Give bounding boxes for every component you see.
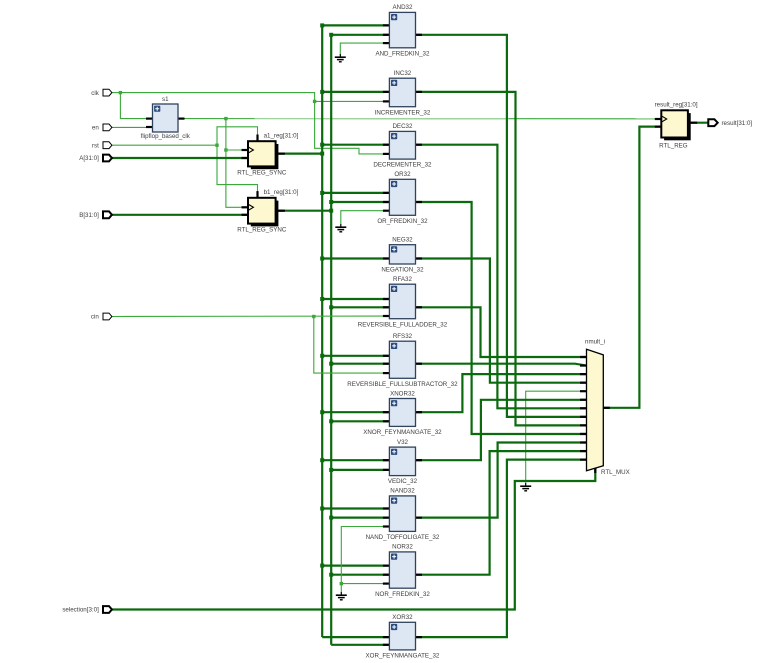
ground at RTL_MUX pin5 (520, 483, 531, 491)
node A trunk junction (320, 257, 324, 261)
node A trunk junction (320, 143, 324, 147)
wire bus B branch to RFA32 (331, 306, 389, 308)
node A trunk junction (320, 90, 324, 94)
wire bus A branch to RFA32 (322, 298, 389, 300)
wire bus A branch to DEC32 (322, 144, 389, 146)
svg-text:AND32: AND32 (392, 4, 413, 11)
node B trunk junction (329, 573, 333, 577)
svg-text:REVERSIBLE_FULLADDER_32: REVERSIBLE_FULLADDER_32 (358, 321, 448, 328)
wire clk from port (112, 92, 121, 94)
svg-text:XOR32: XOR32 (392, 614, 413, 621)
svg-text:RFA32: RFA32 (393, 276, 412, 283)
svg-text:XNOR_FEYNMANGATE_32: XNOR_FEYNMANGATE_32 (363, 429, 442, 436)
node A trunk junction (320, 191, 324, 195)
wire bus a1_reg Q to A trunk (278, 153, 322, 155)
wire clk trunk to DEC32 pin2 (120, 93, 389, 154)
wire bus A branch to V32 (322, 459, 389, 461)
module REVERSIBLE_FULLSUBTRACTOR_32 (RFS32) (347, 333, 458, 388)
wire bus A branch to NAND32 (322, 507, 389, 509)
svg-text:rst: rst (92, 142, 99, 149)
wire bus B branch to V32 (331, 469, 389, 471)
ground below OR32 (335, 224, 346, 232)
wire bus mux out to RTL_REG D (603, 127, 661, 408)
wire bus A branch to XNOR32 (322, 411, 389, 413)
wire gated clock branch to a1_reg C (226, 149, 248, 151)
node rst junction (215, 144, 218, 147)
wire RTL_MUX pin5 to ground (526, 391, 587, 483)
wire bus A trunk vertical (321, 25, 323, 637)
wire bus XOR32 out to mux pin13 (416, 460, 587, 637)
node B trunk junction (329, 200, 333, 204)
svg-text:RTL_REG_SYNC: RTL_REG_SYNC (237, 226, 287, 233)
wire NAND32 pin3 to ground (341, 527, 389, 593)
wire bus B branch to XOR32 (331, 644, 389, 646)
wire bus INC32 out to mux pin9 (416, 92, 587, 426)
wire rst to a1_reg R pin (217, 127, 258, 145)
module VEDIC_32 (V32) (383, 439, 422, 485)
input port en (92, 124, 112, 132)
svg-text:REVERSIBLE_FULLSUBTRACTOR_32: REVERSIBLE_FULLSUBTRACTOR_32 (347, 381, 458, 388)
node gated clock junction (224, 117, 227, 120)
svg-text:VEDIC_32: VEDIC_32 (388, 478, 418, 485)
wire bus b1_reg Q to B trunk (278, 210, 331, 212)
multiplexer nmult_i RTL_MUX (580, 339, 630, 477)
wire bus B trunk vertical (330, 35, 332, 645)
svg-text:RTL_MUX: RTL_MUX (601, 469, 630, 476)
wire bus XNOR32 out to mux pin3 (416, 374, 587, 412)
svg-text:V32: V32 (397, 439, 409, 446)
svg-text:RTL_REG: RTL_REG (659, 142, 688, 149)
wire rst to b1_reg R pin (217, 145, 258, 198)
wire cin to RFA32 pin3 (112, 315, 390, 318)
input port A[31:0] (79, 155, 112, 163)
node A trunk junction (320, 297, 324, 301)
node cin junction (312, 315, 315, 318)
svg-text:INCREMENTER_32: INCREMENTER_32 (375, 109, 431, 116)
node B trunk junction (329, 33, 333, 37)
svg-text:OR32: OR32 (394, 171, 411, 178)
module NAND_TOFFOLIGATE_32 (NAND32) (366, 488, 440, 541)
wire bus A branch to NOR32 (322, 564, 389, 566)
wire bus RFA32 out to mux pin1 (416, 307, 587, 357)
svg-text:NEG32: NEG32 (392, 237, 413, 244)
wire OR32 pin3 to ground (341, 211, 390, 224)
svg-text:s1: s1 (162, 96, 169, 103)
wire bus NAND32 out to mux pin11 (416, 443, 587, 518)
node B trunk junction (329, 419, 333, 423)
svg-text:result[31:0]: result[31:0] (722, 120, 753, 127)
svg-text:clk: clk (91, 90, 99, 97)
svg-text:NAND_TOFFOLIGATE_32: NAND_TOFFOLIGATE_32 (366, 534, 440, 541)
wire gated clock down to b1_reg C (226, 119, 248, 208)
node clk-INC junction (313, 100, 316, 103)
flipflop block s1 (141, 96, 191, 140)
svg-text:selection[3:0]: selection[3:0] (62, 607, 99, 614)
module REVERSIBLE_FULLADDER_32 (RFA32) (358, 276, 448, 328)
wire bus OR32 out to mux pin10 (416, 202, 587, 434)
wire bus NEG32 out to mux pin4 (416, 259, 587, 383)
svg-text:a1_reg[31:0]: a1_reg[31:0] (264, 133, 299, 140)
svg-text:en: en (92, 125, 99, 132)
wire bus A branch to OR32 (322, 192, 389, 194)
wire bus B branch to NOR32 (331, 574, 389, 576)
wire clk to s1 CLK pin (120, 93, 152, 119)
node A trunk junction (320, 507, 324, 511)
svg-text:NEGATION_32: NEGATION_32 (381, 267, 424, 274)
svg-text:DEC32: DEC32 (392, 123, 413, 130)
wire bus A branch to INC32 (322, 91, 389, 93)
wire bus VEDIC32 out to mux pin6 (416, 400, 587, 460)
svg-text:NAND32: NAND32 (390, 488, 415, 495)
wire cin branch to RFS32 pin3 (314, 317, 390, 374)
node A trunk junction (320, 564, 324, 568)
wire bus A[31:0] to a1_reg D (112, 157, 248, 159)
module NEGATION_32 (NEG32) (381, 237, 424, 274)
input port clk (91, 89, 112, 97)
wire bus B branch to OR32 (331, 201, 389, 203)
module AND_FREDKIN_32 (AND32) (375, 4, 430, 57)
node A trunk junction (320, 458, 324, 462)
wire bus selection to mux select (112, 469, 595, 610)
node B trunk junction (329, 468, 333, 472)
register result_reg RTL_REG (655, 102, 698, 141)
svg-text:INC32: INC32 (394, 70, 412, 77)
wire bus B branch to AND32 (331, 34, 389, 36)
svg-text:RFS32: RFS32 (393, 333, 413, 340)
svg-text:flipflop_based_clk: flipflop_based_clk (141, 133, 191, 140)
node B trunk junction (329, 305, 333, 309)
svg-text:nmult_i: nmult_i (585, 339, 605, 346)
svg-text:RTL_REG_SYNC: RTL_REG_SYNC (237, 169, 287, 176)
ground below NOR32 (336, 592, 347, 600)
wire bus A branch to AND32 (322, 24, 389, 26)
register b1_reg RTL_REG_SYNC (242, 189, 299, 226)
wire AND32 pin3 to ground (340, 43, 389, 54)
module XNOR_FEYNMANGATE_32 (XNOR32) (363, 390, 442, 436)
svg-text:cin: cin (91, 314, 99, 321)
svg-text:A[31:0]: A[31:0] (79, 155, 99, 162)
svg-text:DECREMENTER_32: DECREMENTER_32 (373, 162, 432, 169)
svg-text:XOR_FEYNMANGATE_32: XOR_FEYNMANGATE_32 (366, 653, 440, 660)
svg-text:b1_reg[31:0]: b1_reg[31:0] (264, 189, 299, 196)
wire bus B[31:0] to b1_reg D (112, 214, 248, 216)
module XOR_FEYNMANGATE_32 (XOR32) (366, 614, 440, 659)
svg-text:XNOR32: XNOR32 (390, 390, 415, 397)
wire bus B branch to XNOR32 (331, 420, 389, 422)
node clk junction (119, 91, 122, 94)
svg-text:NOR32: NOR32 (392, 544, 413, 551)
node gated clock a1 junction (224, 148, 227, 151)
module INCREMENTER_32 (INC32) (375, 70, 431, 116)
wire gated clock s1 to RTL_REG C (178, 118, 661, 120)
svg-text:result_reg[31:0]: result_reg[31:0] (655, 102, 698, 109)
svg-text:NOR_FREDKIN_32: NOR_FREDKIN_32 (375, 591, 430, 598)
wire bus RFS32 out to mux pin2 (416, 364, 587, 366)
svg-text:OR_FREDKIN_32: OR_FREDKIN_32 (377, 218, 428, 225)
module NOR_FREDKIN_32 (NOR32) (375, 544, 430, 598)
node A trunk junction (320, 354, 324, 358)
node B trunk junction (329, 209, 333, 213)
module DECREMENTER_32 (DEC32) (373, 123, 432, 169)
input port B[31:0] (79, 211, 112, 219)
register a1_reg RTL_REG_SYNC (242, 133, 299, 170)
wire bus AND32 out to mux pin8 (416, 35, 587, 417)
wire en to s1 (112, 126, 153, 128)
wire bus NOR32 out to mux pin12 (416, 451, 587, 575)
wire bus DEC32 out to mux pin7 (416, 145, 587, 409)
wire bus B branch to NAND32 (331, 516, 389, 518)
node B trunk junction (329, 362, 333, 366)
module OR_FREDKIN_32 (OR32) (377, 171, 428, 225)
wire clk branch to INC32 pin2 (315, 100, 390, 102)
input port rst (92, 142, 112, 150)
wire bus A branch to XOR32 (322, 636, 389, 638)
wire bus A branch to NEG32 (322, 257, 389, 259)
wire rst from port (112, 144, 217, 146)
wire bus RTL_REG Q to result port (691, 122, 709, 124)
wire bus A branch to RFS32 (322, 355, 389, 357)
svg-text:AND_FREDKIN_32: AND_FREDKIN_32 (375, 50, 430, 57)
node A trunk junction (320, 152, 324, 156)
node A trunk junction (320, 410, 324, 414)
svg-text:B[31:0]: B[31:0] (79, 212, 99, 219)
input port selection[3:0] (62, 606, 112, 614)
input port cin (91, 313, 112, 321)
wire bus B branch to RFS32 (331, 363, 389, 365)
node A trunk junction (320, 23, 324, 27)
node B trunk junction (329, 516, 333, 520)
ground below AND32 (335, 54, 346, 62)
wire ground branch to NOR32 pin3 (341, 583, 389, 585)
node gnd NOR junction (340, 582, 343, 585)
output port result[31:0] (708, 119, 752, 127)
